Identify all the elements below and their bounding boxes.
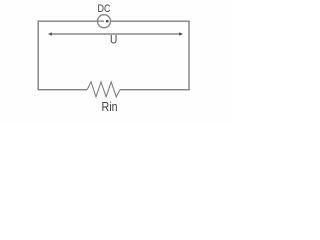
wire: bottom right segment <box>120 89 190 91</box>
wire: left vertical <box>37 21 39 90</box>
DC source internal dot <box>106 20 109 23</box>
wire: bottom left segment <box>38 89 88 91</box>
resistor Rin zigzag <box>87 82 120 97</box>
svg-text:Rin: Rin <box>102 100 118 114</box>
wire: top right segment <box>111 20 190 22</box>
voltage arrow U (double-headed) <box>48 32 183 36</box>
wire: right vertical <box>188 21 190 90</box>
DC source U1 <box>98 15 111 28</box>
DC source internal line <box>98 20 104 22</box>
svg-text:DC: DC <box>98 3 111 15</box>
wire: top left segment <box>38 20 98 22</box>
svg-text:U: U <box>110 35 117 47</box>
